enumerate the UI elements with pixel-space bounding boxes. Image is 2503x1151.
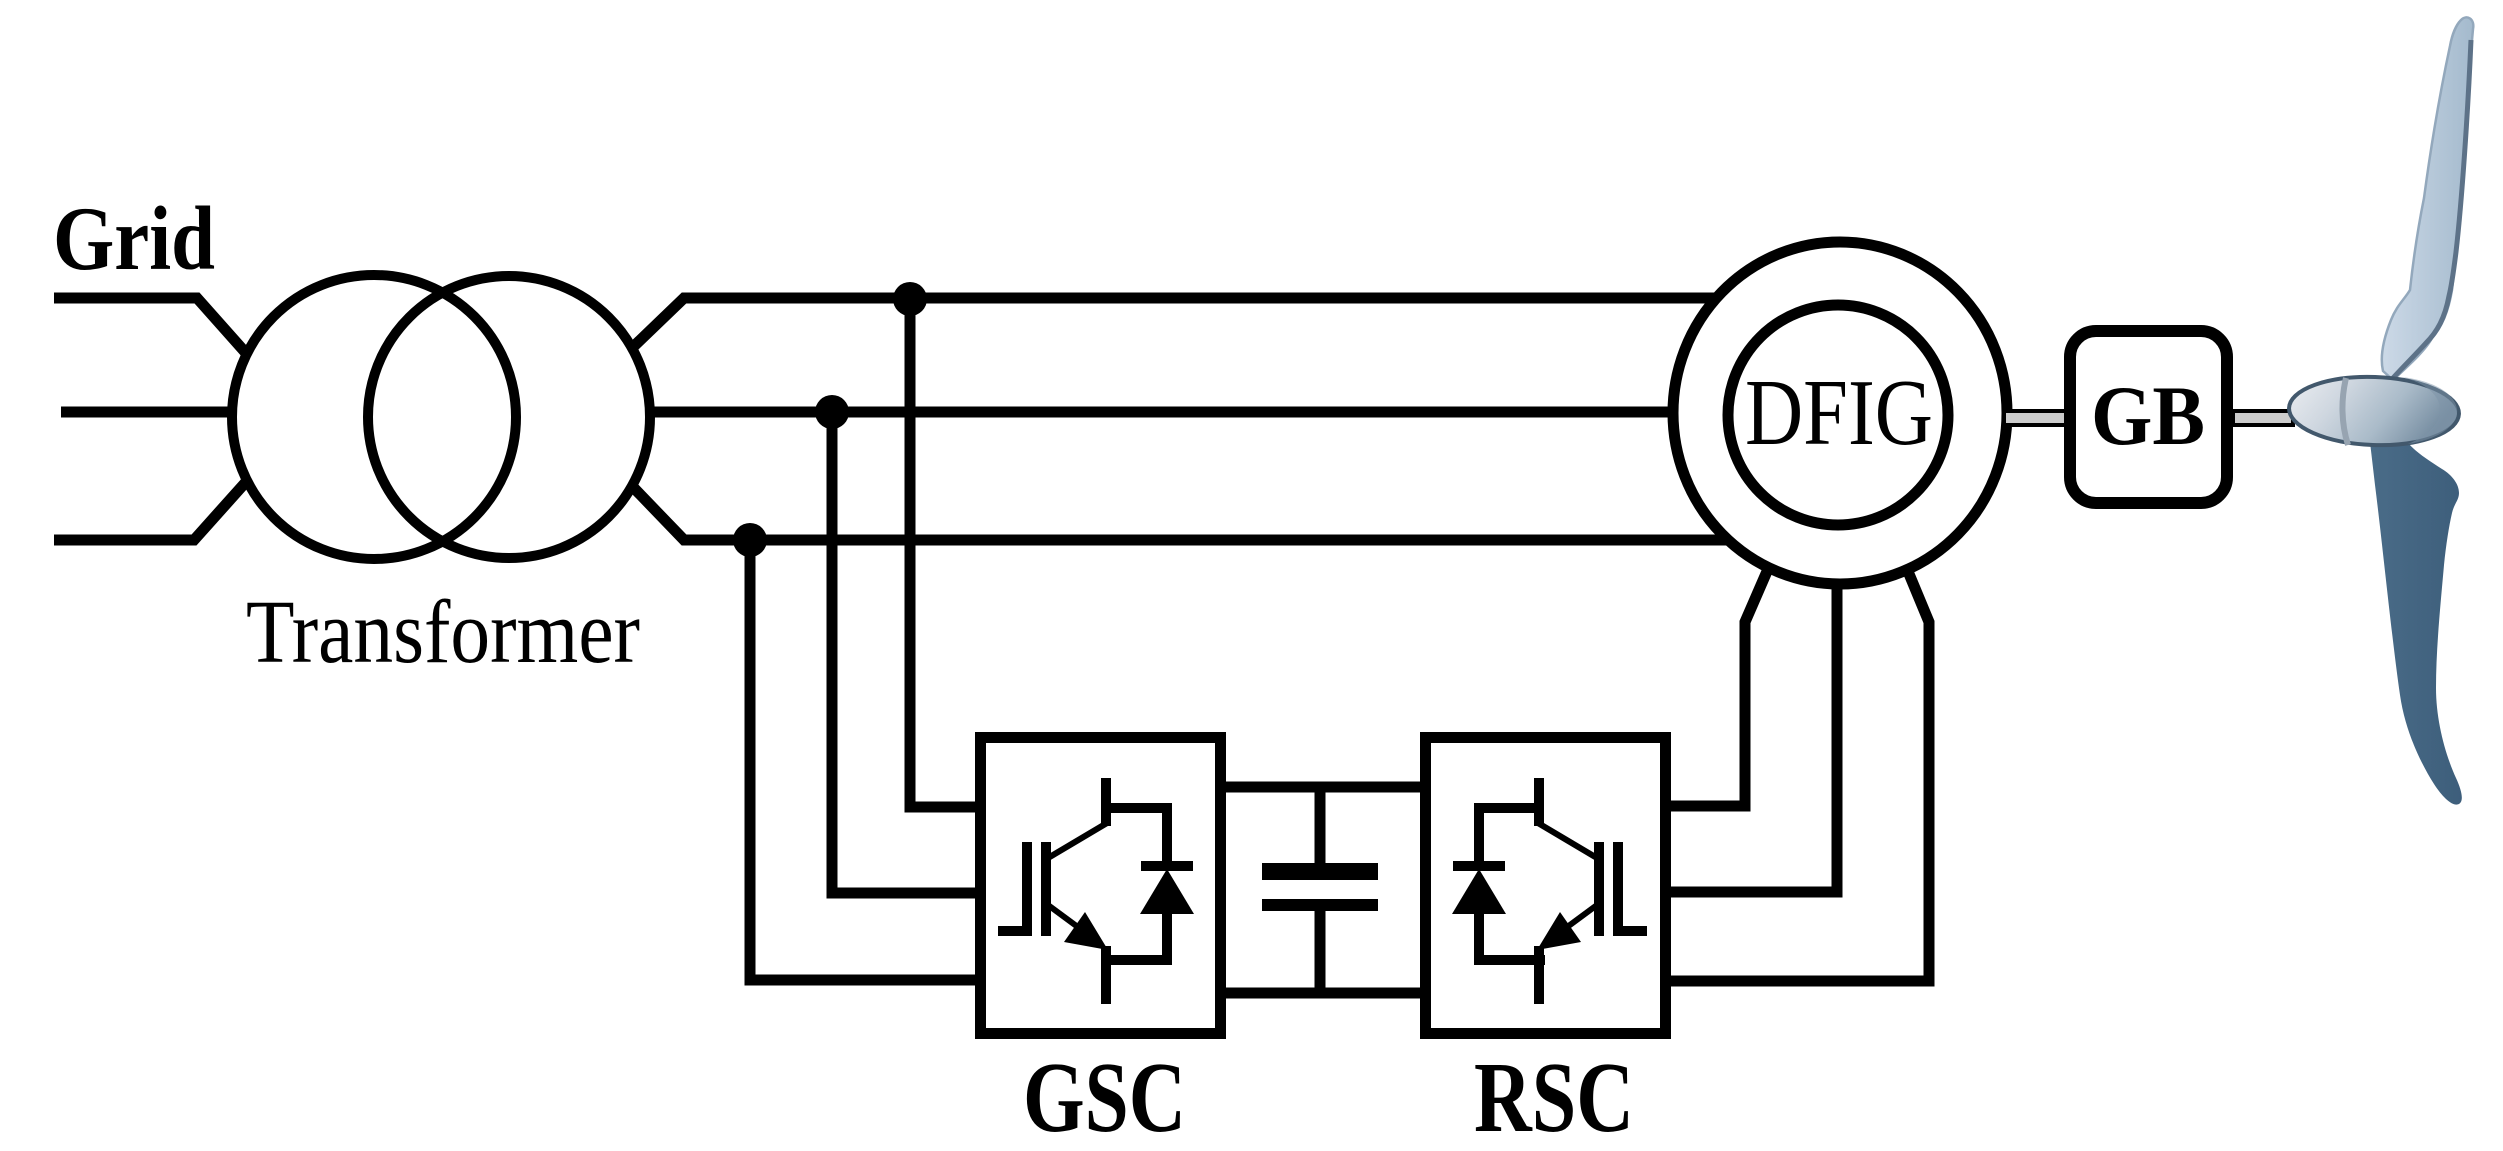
- shaft gearbox to rotor hub: [2233, 411, 2293, 425]
- wire: phase C transformer to DFIG stator: [632, 486, 1729, 540]
- transformer secondary winding circle: [368, 276, 650, 558]
- GSC IGBT emitter lead stub: [1101, 946, 1111, 1004]
- gearbox GB box: [2070, 331, 2227, 503]
- GSC diode anode lead: [1162, 910, 1172, 965]
- GSC IGBT emitter arrowhead: [1064, 912, 1108, 950]
- wire: grid phase A left segment: [54, 298, 245, 352]
- wind turbine hub seam: [2342, 378, 2348, 445]
- wire: rotor phase c RSC to DFIG: [1665, 516, 1929, 981]
- svg-text:GB: GB: [2091, 369, 2205, 463]
- RSC diode triangle: [1452, 869, 1506, 914]
- wire: grid phase C left segment: [54, 483, 245, 540]
- svg-text:Transformer: Transformer: [246, 583, 640, 682]
- RSC IGBT collector diagonal: [1538, 823, 1597, 858]
- GSC IGBT collector lead stub: [1101, 778, 1111, 826]
- RSC IGBT gate bar: [1613, 842, 1623, 936]
- GSC diode cathode lead: [1162, 803, 1172, 866]
- wind turbine hub shading: [2402, 377, 2457, 444]
- RSC IGBT emitter arrowhead: [1537, 912, 1581, 950]
- RSC IGBT collector lead stub: [1534, 778, 1544, 826]
- capacitor C top plate: [1262, 863, 1378, 880]
- junction node phase C: [733, 523, 767, 557]
- GSC IGBT gate lead: [998, 926, 1027, 936]
- RSC IGBT gate lead: [1618, 926, 1647, 936]
- DFIG rotor inner circle: [1728, 305, 1948, 525]
- svg-text:DFIG: DFIG: [1745, 361, 1933, 465]
- GSC IGBT body bar: [1041, 842, 1051, 936]
- wind turbine lower blade: [2370, 442, 2462, 805]
- RSC diode cathode lead: [1474, 803, 1484, 866]
- DC link bottom wire: [1221, 988, 1425, 999]
- GSC diode cathode bar: [1141, 861, 1193, 871]
- wire: phase C drop to GSC: [750, 540, 978, 980]
- RSC bottom connector wire: [1479, 955, 1545, 965]
- RSC diode cathode bar: [1453, 861, 1505, 871]
- wire: phase A transformer to DFIG stator: [632, 298, 1716, 348]
- transformer primary winding circle: [232, 275, 516, 559]
- GSC diode triangle: [1140, 869, 1194, 914]
- junction node phase B: [815, 395, 849, 429]
- GSC IGBT collector diagonal: [1048, 823, 1107, 858]
- svg-text:Grid: Grid: [53, 188, 215, 289]
- wind turbine upper blade: [2382, 17, 2473, 380]
- RSC IGBT body bar: [1594, 842, 1604, 936]
- DC link top wire: [1221, 782, 1425, 793]
- svg-text:GSC: GSC: [1023, 1041, 1186, 1151]
- wire: phase B transformer to DFIG stator: [648, 407, 1674, 418]
- capacitor C bottom plate: [1262, 899, 1378, 911]
- RSC diode anode lead: [1474, 910, 1484, 965]
- wire: rotor phase b RSC to DFIG: [1665, 526, 1837, 892]
- GSC top connector wire: [1106, 803, 1167, 813]
- wind turbine upper blade trailing edge: [2393, 40, 2471, 378]
- wire: phase B drop to GSC: [832, 412, 978, 893]
- RSC top connector wire: [1479, 803, 1539, 813]
- DFIG stator outer circle: [1673, 242, 2007, 584]
- RSC IGBT emitter diagonal: [1555, 905, 1597, 936]
- wire: grid phase B left segment: [61, 407, 236, 418]
- RSC converter box: [1426, 738, 1666, 1034]
- GSC bottom connector wire: [1101, 955, 1167, 965]
- capacitor C bottom lead: [1315, 910, 1326, 993]
- wire: phase A drop to GSC: [910, 299, 978, 807]
- wire: rotor phase a RSC to DFIG: [1665, 516, 1791, 806]
- junction node phase A: [893, 282, 927, 316]
- svg-text:RSC: RSC: [1474, 1041, 1634, 1151]
- capacitor C top lead: [1315, 787, 1326, 866]
- wind turbine hub nose cone: [2288, 374, 2460, 448]
- RSC IGBT emitter lead stub: [1534, 946, 1544, 1004]
- GSC converter box: [981, 738, 1221, 1034]
- GSC IGBT gate bar: [1022, 842, 1032, 936]
- GSC IGBT emitter diagonal: [1048, 905, 1090, 936]
- shaft DFIG to gearbox: [2004, 411, 2068, 425]
